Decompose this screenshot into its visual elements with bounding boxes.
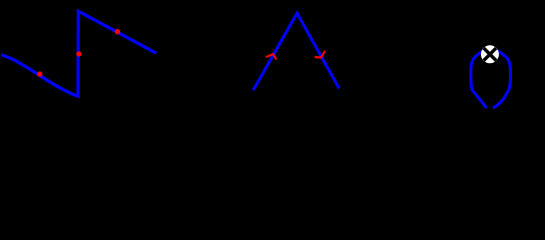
wire: right figure loop (teardrop open at bottom, top behind marker) xyxy=(471,49,511,108)
node B: red point on vertical jump segment xyxy=(76,51,81,56)
wire: middle figure tent path (up then down) xyxy=(253,13,339,90)
node E: red arrowhead on descending segment, pointing down-right xyxy=(315,52,324,58)
wire: left figure curve with jump (down-curve, vertical jump up, straight down) xyxy=(1,11,156,96)
node D: red arrowhead on ascending segment, pointing up-right xyxy=(267,54,276,59)
node C: red point on second segment xyxy=(115,29,120,34)
node F: base point marker, white circle with black X xyxy=(481,45,499,63)
node A: red point on first curve xyxy=(37,71,42,76)
